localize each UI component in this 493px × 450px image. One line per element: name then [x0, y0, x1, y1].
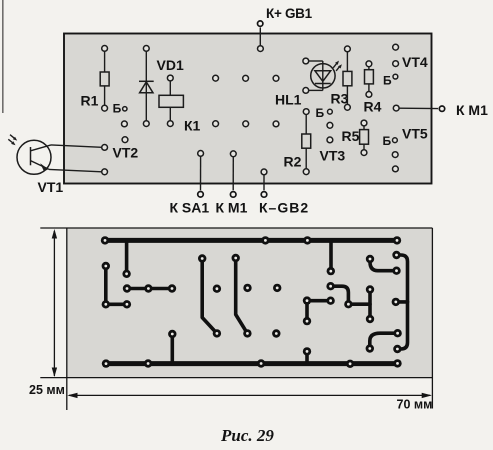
terminal К-GB2: [261, 169, 267, 197]
resistor R4: [365, 61, 374, 97]
pad bus BL: [102, 359, 110, 367]
pad iso1: [213, 285, 221, 293]
pad mh2: [144, 284, 152, 292]
pad vB top: [232, 254, 240, 262]
svg-text:VD1: VD1: [157, 57, 184, 73]
pad c330b: [326, 297, 334, 305]
VT5 pads: [393, 138, 398, 143]
pad c307c: [303, 347, 311, 355]
pad mh1: [123, 284, 131, 292]
svg-text:VT4: VT4: [402, 54, 428, 70]
svg-text:R5: R5: [342, 128, 360, 144]
trace pad370 to pad396 upper: [370, 259, 397, 271]
transistor VT1: [17, 140, 51, 174]
VT4 pads: [393, 44, 399, 50]
pad c396d: [393, 329, 401, 337]
vertical from 172.3,334 to bottom bus: [171, 334, 175, 364]
pad bus b3: [257, 359, 265, 367]
terminal К SA1: [198, 151, 204, 198]
svg-text:Б: Б: [113, 102, 122, 116]
pad lc2: [102, 300, 110, 308]
scan edge line left: [2, 0, 4, 113]
bottom bus trace: [106, 361, 398, 366]
pad v172: [168, 330, 176, 338]
svg-text:Б: Б: [316, 106, 325, 120]
vertical dimension line 25mm: [52, 229, 57, 377]
top bus trace: [105, 238, 397, 243]
pad bus t3: [303, 236, 311, 244]
resistor R5: [360, 120, 369, 155]
pad bus TL: [101, 236, 109, 244]
stub to pad from top bus left: [125, 240, 129, 273]
long right vertical trace: [397, 255, 408, 349]
svg-text:К М1: К М1: [456, 102, 488, 118]
mid-left horizontal trace: [127, 287, 172, 291]
pad VT3 collector: [327, 122, 333, 128]
svg-text:HL1: HL1: [275, 92, 302, 108]
pad VT2 emitter: [122, 137, 128, 143]
relay K1: [159, 75, 183, 126]
resistor R3: [343, 46, 352, 110]
pad vA top: [198, 254, 206, 262]
LED HL1: [303, 58, 335, 93]
wire VT1 collector to pad: [51, 145, 102, 147]
grid pads middle: [213, 75, 219, 81]
stub 395.8,301.9: [396, 300, 408, 304]
svg-text:R4: R4: [364, 99, 382, 115]
pad VT1 collector: [102, 145, 108, 151]
board border bottom + left extension: [40, 377, 432, 379]
svg-text:К1: К1: [184, 118, 201, 134]
svg-text:70 мм: 70 мм: [397, 398, 433, 412]
terminal К М1 right: [393, 105, 444, 111]
pad stub left: [122, 270, 130, 278]
pad c396a: [392, 251, 400, 259]
pad mh3: [168, 284, 176, 292]
board outline: [64, 34, 432, 184]
pad c348: [344, 300, 352, 308]
pad stub mid: [327, 267, 335, 275]
svg-text:VT2: VT2: [113, 145, 139, 161]
stub to pad from top bus mid: [329, 240, 333, 271]
svg-text:К–GB2: К–GB2: [259, 200, 309, 216]
pad diagA: [213, 329, 221, 337]
svg-text:Б: Б: [383, 134, 392, 148]
s-curve to pad 369.8,348.5: [370, 333, 398, 348]
pad iso3: [273, 284, 281, 292]
pad c370a: [366, 255, 374, 263]
short vertical 370: [368, 290, 372, 320]
svg-text:К М1: К М1: [216, 200, 248, 216]
pad diagB: [243, 329, 251, 337]
svg-text:К+ GB1: К+ GB1: [266, 6, 313, 21]
board border left + bottom extension: [66, 228, 68, 410]
svg-text:25 мм: 25 мм: [29, 383, 65, 397]
pad bus b2: [144, 359, 152, 367]
svg-text:Рис. 29: Рис. 29: [220, 426, 274, 445]
pad c370b: [366, 285, 374, 293]
terminal К+GB1: [258, 21, 264, 52]
pad c370d: [366, 344, 374, 352]
pad Б VT3: [328, 109, 333, 114]
pad iso4: [272, 329, 280, 337]
svg-text:Б: Б: [383, 74, 392, 88]
pad VT2 collector: [122, 121, 128, 127]
column 307 traces: [307, 301, 331, 321]
terminal К М1 bottom: [230, 151, 236, 197]
pad holes: [104, 239, 399, 365]
pad bus TR: [393, 236, 401, 244]
light arrows HL1: [333, 61, 342, 71]
resistor R2: [302, 109, 311, 175]
pad c307b: [303, 317, 311, 325]
resistor R1: [100, 46, 109, 112]
svg-text:К SA1: К SA1: [170, 200, 210, 216]
svg-text:R3: R3: [331, 91, 349, 107]
pads bottom board: [101, 236, 402, 368]
pad c307a: [303, 296, 311, 304]
svg-text:R2: R2: [284, 154, 302, 170]
svg-text:R1: R1: [81, 93, 99, 109]
vertical trace A with diagonal: [202, 259, 217, 334]
pad iso2: [243, 284, 251, 292]
pad VT3 emitter: [327, 137, 333, 143]
board border right + bottom extension: [431, 228, 433, 409]
pad c396c: [392, 298, 400, 306]
curve from 330.6,286.2: [331, 286, 349, 304]
svg-text:VT3: VT3: [320, 148, 346, 164]
diode VD1: [139, 46, 154, 127]
board fill: [67, 228, 433, 378]
light arrows into VT1: [8, 135, 17, 146]
pad bus b4: [346, 360, 354, 368]
board border top + left extension: [40, 227, 432, 229]
pad c396e: [393, 345, 401, 353]
pad bus t2: [261, 236, 269, 244]
pad c370c: [366, 315, 374, 323]
pad Б VT2: [123, 107, 127, 111]
pad lc1: [102, 262, 110, 270]
horizontal dimension line 70mm: [67, 393, 432, 398]
wire VT1 emitter to pad: [49, 169, 102, 171]
svg-text:VT5: VT5: [402, 126, 428, 142]
left cluster trace: [106, 266, 127, 304]
pad bus BR: [393, 359, 401, 367]
pad VT1 emitter: [102, 169, 108, 175]
pad c330a: [326, 282, 334, 290]
svg-text:VT1: VT1: [38, 179, 64, 195]
pad c396b: [392, 267, 400, 275]
pad lc3: [123, 300, 131, 308]
horizontal joining 370 vertical: [348, 302, 370, 306]
vertical trace B with diagonal: [236, 258, 248, 333]
